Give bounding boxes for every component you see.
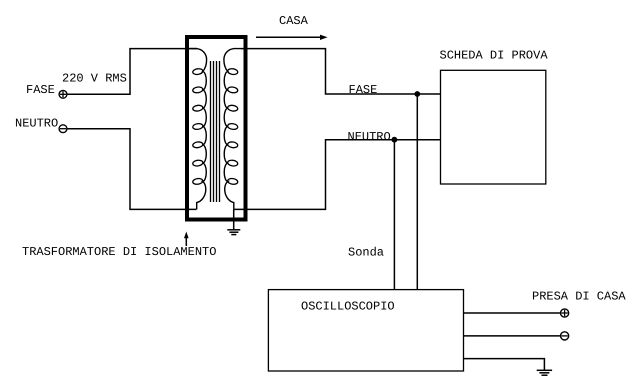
ground (presa di casa earth) [537,370,552,375]
transformer T1 core (laminations) [211,61,220,202]
wire secondary top to FASE output [241,49,441,94]
arrow from label to transformer [184,232,189,247]
svg-text:220 V RMS: 220 V RMS [62,72,127,86]
svg-text:FASE: FASE [349,83,378,97]
svg-text:FASE: FASE [26,83,55,97]
wire NEUTRO input to transformer primary bottom [67,129,197,210]
svg-text:OSCILLOSCOPIO: OSCILLOSCOPIO [301,300,395,314]
svg-text:SCHEDA DI PROVA: SCHEDA DI PROVA [440,49,549,63]
wire oscilloscope chassis to ground [464,359,545,371]
terminal PRESA DI CASA (-) [561,332,569,340]
svg-text:Sonda: Sonda [348,245,384,259]
terminal FASE input (+) [59,90,67,98]
node FASE junction [414,91,420,97]
box OSCILLOSCOPIO [268,290,463,371]
svg-text:NEUTRO: NEUTRO [15,117,58,131]
ground (transformer case earth) [227,209,240,234]
svg-text:NEUTRO: NEUTRO [348,130,391,144]
terminal PRESA DI CASA (+) [561,309,569,317]
terminal NEUTRO input (-) [59,125,67,133]
svg-text:TRASFORMATORE DI ISOLAMENTO: TRASFORMATORE DI ISOLAMENTO [22,245,216,259]
transformer T1 case (shield box) [187,37,246,220]
node NEUTRO junction [392,137,398,143]
svg-text:PRESA DI CASA: PRESA DI CASA [532,289,626,303]
wire oscilloscope to presa + terminal [464,312,561,314]
wire probe from NEUTRO node to oscilloscope [393,140,395,290]
wire FASE input to transformer primary top [67,49,197,95]
wire secondary bottom to NEUTRO output [234,140,441,210]
svg-text:CASA: CASA [279,14,309,28]
transformer T1 primary winding [189,49,207,210]
wire probe from FASE node to oscilloscope [416,94,418,290]
box SCHEDA DI PROVA [441,70,546,184]
transformer T1 secondary winding [224,49,242,210]
wire oscilloscope to presa - terminal [464,335,561,337]
arrow CASA (direction of mains feed) [256,35,328,40]
